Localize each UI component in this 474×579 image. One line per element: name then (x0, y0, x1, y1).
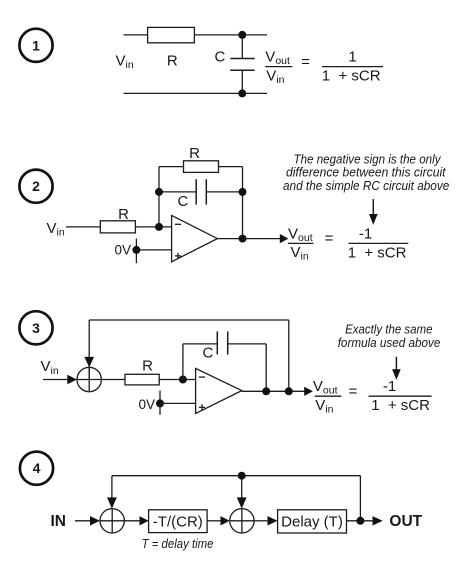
summing junction S1 (77, 367, 101, 391)
svg-text:1: 1 (32, 37, 40, 53)
svg-text:R: R (189, 145, 200, 162)
wire output (242, 390, 306, 392)
node output (239, 235, 247, 243)
svg-text:1 + sCR: 1 + sCR (322, 68, 381, 85)
arrow feedback into S2 (107, 497, 117, 508)
svg-text:and the simple RC circuit abov: and the simple RC circuit above (283, 179, 449, 193)
svg-text:C: C (215, 48, 226, 65)
section marker 3 (19, 311, 52, 344)
svg-text:Exactly the same: Exactly the same (345, 323, 432, 337)
svg-text:1 + sCR: 1 + sCR (348, 244, 407, 261)
resistor R feedback (184, 161, 219, 173)
node left cap junction (155, 188, 163, 196)
wire block to S3 (207, 520, 221, 522)
node cap branch (179, 376, 187, 384)
svg-text:IN: IN (51, 513, 67, 530)
svg-text:C: C (178, 193, 189, 210)
node feedback tap (238, 472, 246, 480)
capacitor C feedback (196, 179, 206, 204)
node 0V (156, 399, 164, 407)
svg-text:=: = (325, 230, 334, 247)
arrow note down (392, 357, 401, 380)
resistor R (series) (148, 27, 195, 42)
svg-text:C: C (203, 345, 214, 362)
summing junction S2 (100, 509, 124, 533)
svg-text:0V: 0V (139, 397, 156, 412)
svg-text:1 + sCR: 1 + sCR (371, 397, 430, 414)
0V rail bar (159, 391, 161, 415)
op-amp U1 (172, 215, 218, 261)
arrow OUT (373, 516, 383, 525)
wire cap branch vertical (182, 344, 184, 380)
capacitor C (230, 35, 254, 94)
svg-text:=: = (301, 53, 310, 70)
wire 0V to non-inverting input (160, 402, 196, 404)
node feedback return (285, 387, 293, 395)
pin plus (175, 253, 181, 259)
wire feedback right vertical (242, 167, 244, 239)
arrow into delay (268, 516, 278, 525)
wire feedback top (89, 320, 289, 391)
wire cap right vertical (265, 344, 267, 391)
svg-text:The negative sign is the only: The negative sign is the only (294, 152, 442, 166)
wire top rail right (242, 34, 267, 36)
svg-text:R: R (142, 358, 153, 375)
wire cap level right (228, 343, 267, 345)
svg-text:-T/(CR): -T/(CR) (153, 513, 203, 530)
note text italic (283, 152, 449, 193)
wire feedback top (112, 476, 361, 521)
node right cap junction (239, 188, 247, 196)
wire input (43, 379, 69, 381)
wire top rail left (124, 34, 243, 36)
summing junction S3 (230, 509, 254, 533)
0V rail bar (135, 239, 137, 264)
svg-text:formula used above: formula used above (338, 336, 441, 350)
node output tap (356, 517, 364, 525)
svg-text:Delay (T): Delay (T) (281, 513, 343, 530)
svg-text:=: = (349, 383, 358, 400)
wire output (217, 238, 280, 240)
arrow into S3 (221, 516, 230, 525)
section marker 2 (19, 170, 52, 203)
block -T/(CR) (149, 510, 208, 533)
svg-text:4: 4 (33, 460, 41, 476)
node cap return (262, 387, 270, 395)
svg-text:0V: 0V (115, 243, 132, 258)
arrow feedback into S3 (237, 497, 247, 508)
wire output (347, 520, 374, 522)
arrow note down (369, 199, 378, 225)
formula Vout/Vin = -1/(1+sCR) (288, 225, 408, 262)
wire cap level left (159, 191, 196, 193)
formula Vout/Vin = -1/(1+sCR) (313, 378, 432, 415)
svg-text:2: 2 (32, 178, 40, 194)
formula Vout/Vin = 1/(1+sCR) (265, 49, 383, 86)
pin minus (199, 376, 205, 378)
svg-text:-1: -1 (359, 225, 372, 242)
wire cap level right (206, 191, 242, 193)
svg-text:3: 3 (32, 320, 40, 336)
arrow into S2 (90, 516, 100, 525)
resistor R input (100, 221, 135, 233)
svg-text:R: R (118, 206, 129, 223)
wire S2 to block (124, 520, 140, 522)
wire IN (75, 520, 91, 522)
node inverting input (155, 223, 163, 231)
note text italic (338, 323, 441, 350)
section marker 1 (19, 29, 52, 62)
wire S3 to delay (254, 520, 268, 522)
svg-text:1: 1 (348, 49, 356, 66)
wire 0V to non-inverting input (136, 249, 171, 251)
capacitor C (217, 331, 227, 354)
svg-text:-1: -1 (383, 378, 396, 395)
block Delay (T) (278, 510, 347, 533)
pin minus (175, 223, 181, 225)
op-amp U2 (196, 368, 242, 413)
node 0V (132, 246, 140, 254)
arrow output (304, 387, 313, 396)
arrow output (280, 234, 289, 243)
arrow into block (140, 516, 149, 525)
svg-text:R: R (167, 53, 178, 70)
svg-text:difference between this circui: difference between this circuit (286, 166, 446, 180)
svg-text:OUT: OUT (389, 513, 422, 530)
wire R to inverting input (135, 226, 171, 228)
node junction top (238, 31, 246, 39)
section marker 4 (20, 452, 53, 485)
arrow feedback into S1 (84, 357, 94, 367)
node junction bottom (238, 89, 246, 97)
wire bottom rail (124, 92, 268, 94)
arrow input (67, 375, 77, 385)
svg-text:T = delay time: T = delay time (142, 537, 214, 551)
pin plus (199, 404, 205, 410)
wire S1 to R (101, 379, 125, 381)
wire input (66, 226, 100, 228)
wire feedback left vertical (158, 167, 160, 227)
wire cap level left (183, 343, 217, 345)
wire R to inverting input (159, 379, 195, 381)
resistor R (125, 374, 159, 385)
wire feedback top (159, 166, 243, 168)
